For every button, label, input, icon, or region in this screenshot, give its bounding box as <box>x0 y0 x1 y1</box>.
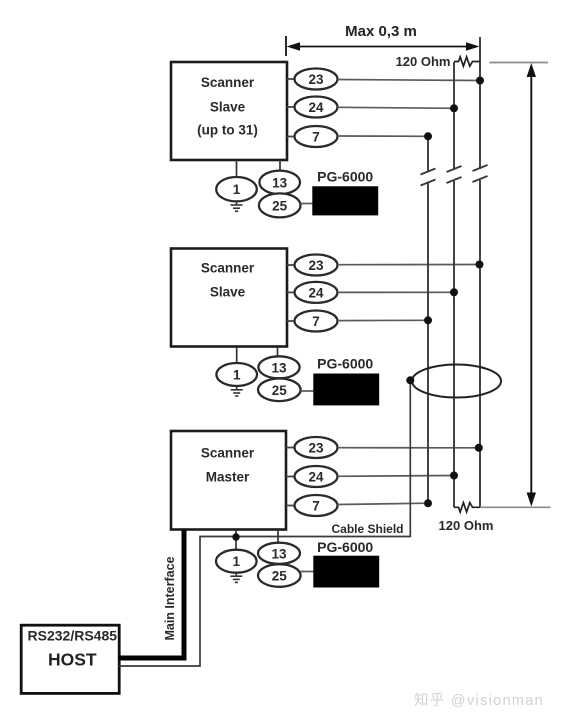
wire master pin25 to PG-6000 <box>301 571 314 573</box>
PG-6000 connector block scanner2 <box>313 374 379 406</box>
wire scanner2 pin23 to bus C <box>338 264 480 266</box>
cable shield ellipse <box>412 365 501 398</box>
scanner master pin 7 <box>286 495 338 516</box>
svg-text:7: 7 <box>312 499 320 514</box>
ground scanner 1 <box>231 201 243 211</box>
scanner 1 pin 7 <box>287 126 338 147</box>
svg-text:24: 24 <box>308 470 324 485</box>
wire scanner1 pin7 to bus A <box>338 135 429 137</box>
junction dot scanner1/busB <box>450 104 458 112</box>
junction dot scanner2/busB <box>450 288 458 296</box>
PG-6000 connector block scanner1 <box>312 186 378 215</box>
junction dot master/busB <box>450 472 458 480</box>
scanner 1 pin 13 <box>259 160 300 194</box>
svg-text:HOST: HOST <box>48 650 97 670</box>
svg-text:120 Ohm: 120 Ohm <box>439 518 494 533</box>
junction dot scanner2/busC <box>476 261 484 269</box>
scanner 1 pin 25 <box>259 193 301 217</box>
bus line A (pin 7 net) <box>427 136 429 503</box>
junction dot master/busA <box>424 499 432 507</box>
scanner 2 pin 24 <box>287 282 338 303</box>
scanner 1 pin 24 <box>287 97 338 118</box>
svg-text:Max 0,3 m: Max 0,3 m <box>345 23 417 40</box>
ground scanner master <box>230 573 242 583</box>
svg-text:1: 1 <box>233 368 241 383</box>
junction dot scanner2/busA <box>424 316 432 324</box>
svg-text:23: 23 <box>308 441 324 456</box>
scanner 2 pin 23 <box>287 255 338 276</box>
svg-text:23: 23 <box>308 72 324 87</box>
svg-text:7: 7 <box>312 130 320 145</box>
bus line A break mark <box>421 169 436 186</box>
scanner 2 pin 1 <box>216 347 257 386</box>
svg-text:RS232/RS485: RS232/RS485 <box>28 628 118 644</box>
scanner master pin 1 <box>216 530 257 573</box>
scanner master pin 23 <box>286 437 338 458</box>
svg-text:PG-6000: PG-6000 <box>317 169 373 185</box>
scanner slave 2 box <box>171 249 287 347</box>
svg-text:Scanner: Scanner <box>201 75 255 90</box>
bus line C (pin 23 net) <box>479 37 481 507</box>
resistor R2 120 Ohm (bottom termination) <box>454 503 480 512</box>
scanner master pin 24 <box>286 466 338 487</box>
svg-text:7: 7 <box>312 314 320 329</box>
scanner master box <box>171 431 286 530</box>
PG-6000 connector block master <box>313 556 379 588</box>
wire scanner2 pin24 to bus B <box>338 291 455 293</box>
svg-text:24: 24 <box>308 285 324 300</box>
scanner 1 pin 1 <box>216 160 257 201</box>
junction dot shield/pin1 <box>232 533 239 540</box>
svg-text:23: 23 <box>308 258 324 273</box>
svg-text:Slave: Slave <box>210 100 246 115</box>
scanner 2 pin 25 <box>258 379 301 402</box>
scanner 2 pin 13 <box>258 347 299 378</box>
wire scanner2 pin25 to PG-6000 <box>301 390 314 392</box>
svg-text:Main Interface: Main Interface <box>163 556 177 640</box>
wire scanner2 pin7 to bus A <box>338 319 429 321</box>
scanner slave 1 box <box>171 62 287 160</box>
svg-text:13: 13 <box>272 175 288 190</box>
scanner 1 pin 23 <box>287 69 338 90</box>
scanner master pin 13 <box>258 530 300 564</box>
bus line B break mark <box>447 166 462 183</box>
ground scanner 2 <box>231 386 243 396</box>
wire master pin24 to bus B <box>338 475 455 478</box>
cable shield wire (HOST to shield ellipse) <box>119 380 410 666</box>
svg-text:13: 13 <box>271 546 287 561</box>
svg-text:Scanner: Scanner <box>201 261 255 276</box>
svg-text:(up to 31): (up to 31) <box>197 123 258 138</box>
svg-text:Cable Shield: Cable Shield <box>331 522 403 536</box>
wire scanner1 pin24 to bus B <box>338 107 455 108</box>
HOST box <box>21 625 119 693</box>
svg-text:Master: Master <box>206 470 250 485</box>
svg-text:25: 25 <box>272 383 288 398</box>
wire scanner1 pin23 to bus C <box>338 80 481 81</box>
junction dot master/busC <box>475 444 483 452</box>
svg-text:120 Ohm: 120 Ohm <box>396 54 451 69</box>
svg-text:25: 25 <box>272 569 288 584</box>
svg-text:Slave: Slave <box>210 285 246 300</box>
svg-text:1: 1 <box>233 554 241 569</box>
wire master pin7 to bus A <box>338 503 429 504</box>
svg-text:1: 1 <box>233 182 241 197</box>
bus line C break mark <box>473 165 488 182</box>
svg-text:24: 24 <box>308 100 324 115</box>
svg-text:PG-6000: PG-6000 <box>317 356 373 372</box>
bus line B (pin 24 net) <box>453 62 455 507</box>
junction dot scanner1/busC <box>476 77 484 85</box>
svg-text:25: 25 <box>272 198 288 213</box>
main interface thick cable <box>119 530 184 659</box>
svg-text:PG-6000: PG-6000 <box>317 539 373 555</box>
resistor R1 120 Ohm (top termination) <box>454 57 480 66</box>
scanner 2 pin 7 <box>287 311 338 332</box>
svg-text:13: 13 <box>271 361 287 376</box>
wire scanner1 pin25 to PG-6000 <box>301 203 313 205</box>
junction dot shield/ellipse <box>406 376 414 384</box>
right length dimension line <box>480 63 551 508</box>
dimension Max 0,3 m <box>286 23 480 56</box>
svg-text:知乎 @visionman: 知乎 @visionman <box>414 692 544 709</box>
wire master pin23 to bus C <box>338 447 479 449</box>
junction dot scanner1/busA <box>424 132 432 140</box>
svg-text:Scanner: Scanner <box>201 446 255 461</box>
scanner master pin 25 <box>258 564 301 587</box>
